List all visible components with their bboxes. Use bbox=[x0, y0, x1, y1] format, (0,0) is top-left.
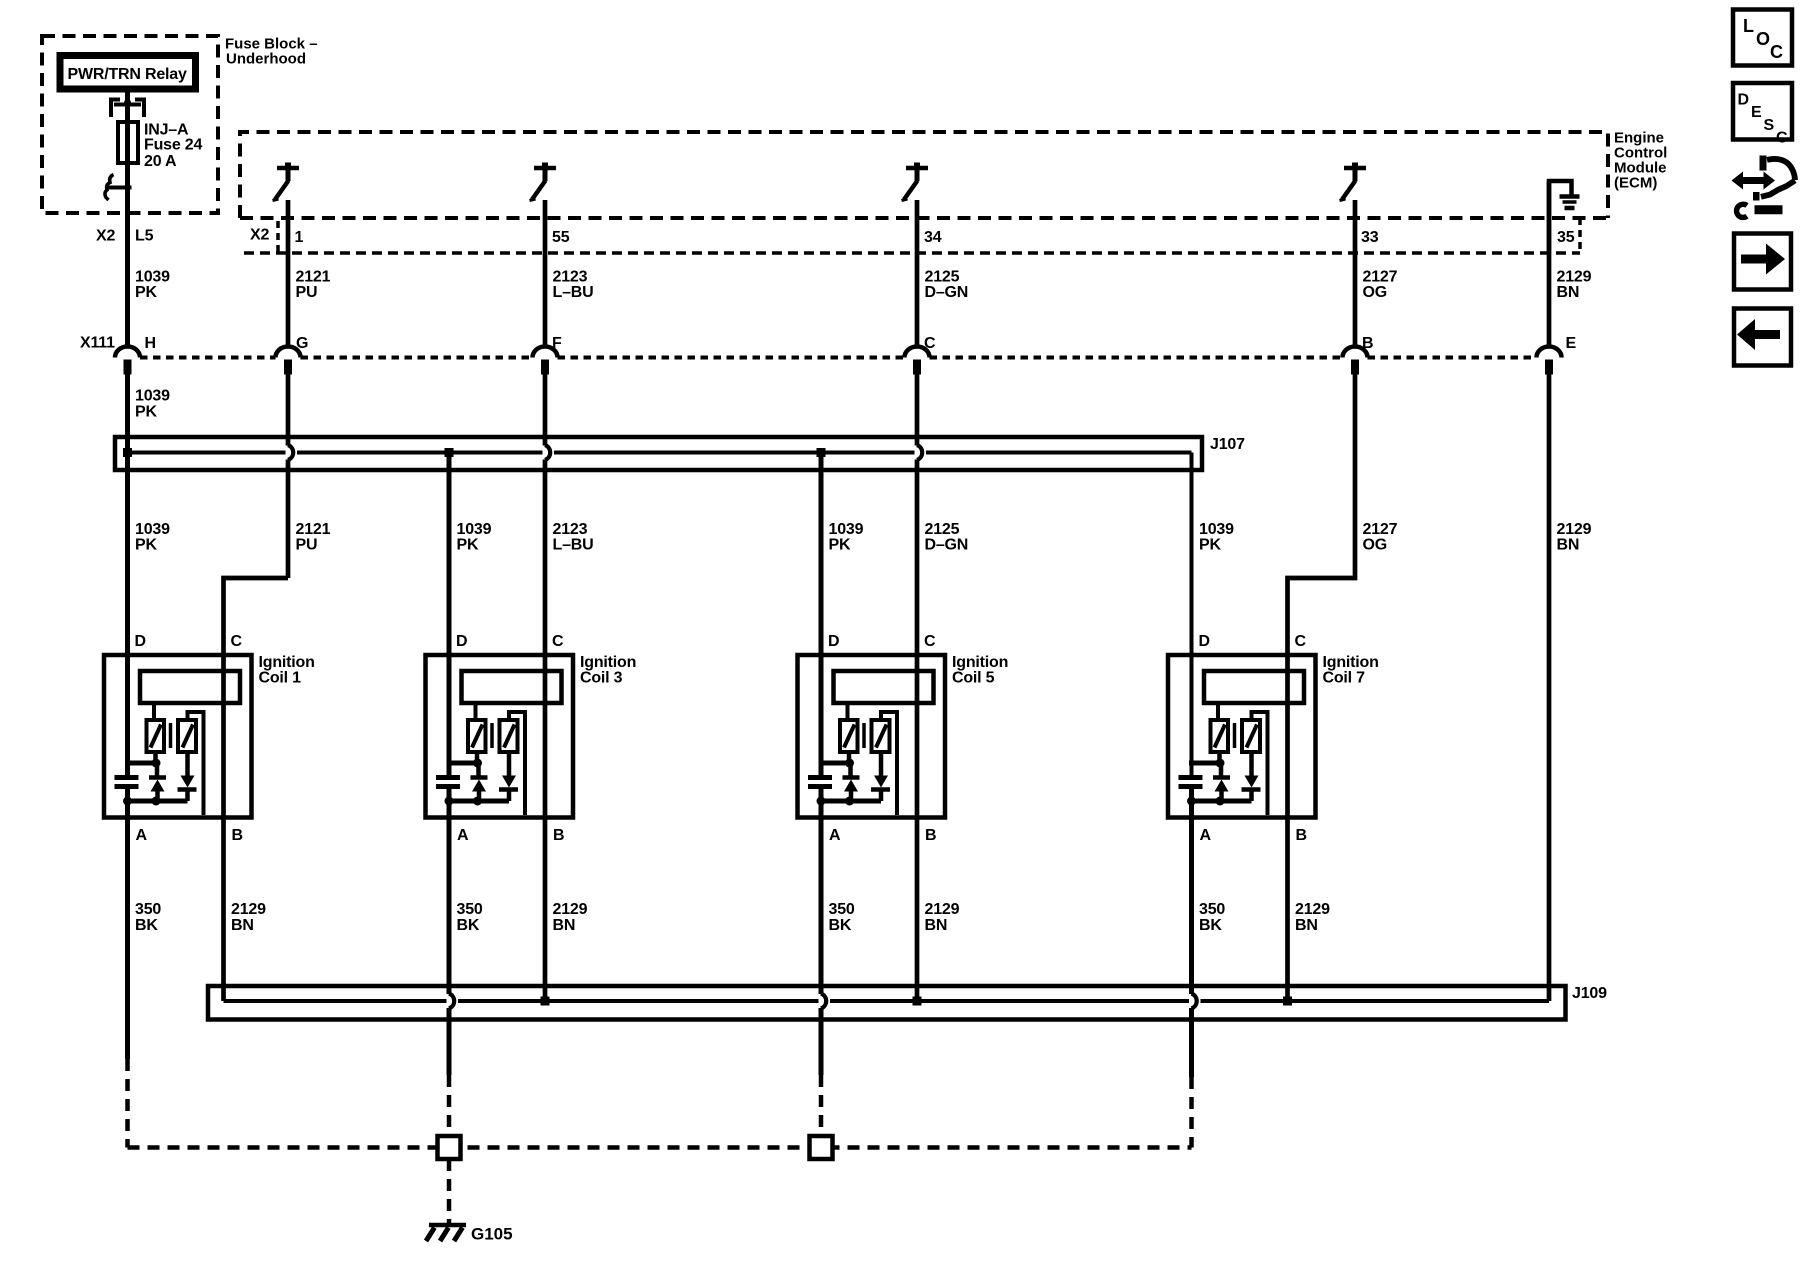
svg-text:PK: PK bbox=[1199, 537, 1221, 554]
wire 1039 PK below X111 bbox=[125, 375, 130, 778]
svg-text:PU: PU bbox=[296, 537, 318, 554]
svg-text:S: S bbox=[1764, 117, 1775, 134]
junction dot J107 coil5 feed bbox=[817, 448, 826, 457]
svg-text:B: B bbox=[1296, 827, 1307, 844]
svg-text:1: 1 bbox=[295, 229, 304, 246]
svg-text:350: 350 bbox=[829, 901, 855, 918]
wire 2121 PU jog to coil1 C bbox=[224, 578, 289, 1001]
X111 pin G bbox=[276, 347, 301, 375]
svg-text:1039: 1039 bbox=[135, 388, 170, 405]
svg-text:Ignition: Ignition bbox=[952, 654, 1008, 671]
X111 pin E bbox=[1537, 347, 1562, 375]
svg-text:B: B bbox=[232, 827, 243, 844]
svg-text:BN: BN bbox=[1557, 284, 1580, 301]
wire 2125 D-GN through J107 with hop down to J109 bbox=[915, 375, 920, 1002]
svg-text:BN: BN bbox=[553, 917, 576, 934]
svg-text:D: D bbox=[1199, 633, 1210, 650]
J109 middle line bbox=[224, 999, 1550, 1003]
svg-text:C: C bbox=[924, 633, 936, 650]
svg-text:J107: J107 bbox=[1210, 436, 1245, 453]
coil1 350 BK wire bbox=[125, 787, 130, 1060]
junction dot J109 coil3 B bbox=[541, 997, 550, 1006]
svg-text:D–GN: D–GN bbox=[925, 537, 969, 554]
coil3 dashed drop bbox=[447, 1075, 452, 1136]
X111 pin C bbox=[905, 347, 930, 375]
svg-text:Coil 5: Coil 5 bbox=[952, 670, 995, 687]
svg-text:PU: PU bbox=[296, 284, 318, 301]
svg-text:D: D bbox=[135, 633, 146, 650]
coil1 350 BK dashed drop bbox=[125, 1059, 130, 1148]
svg-text:34: 34 bbox=[924, 229, 942, 246]
wire 2129 BN down to J109 right end bbox=[1547, 375, 1552, 1002]
junction dot J109 coil5 B bbox=[913, 997, 922, 1006]
coil3 350 BK wire with J109 hop bbox=[447, 787, 452, 1076]
svg-text:C: C bbox=[552, 633, 564, 650]
svg-text:1039: 1039 bbox=[1199, 521, 1234, 538]
svg-text:B: B bbox=[553, 827, 564, 844]
coil7 350 BK wire with J109 hop bbox=[1189, 787, 1194, 1078]
wire 2121 PU through J107 with hop bbox=[286, 375, 291, 579]
svg-text:C: C bbox=[1776, 130, 1788, 147]
svg-text:L–BU: L–BU bbox=[553, 537, 594, 554]
svg-text:C: C bbox=[231, 633, 243, 650]
svg-text:BN: BN bbox=[1295, 917, 1318, 934]
svg-text:D: D bbox=[456, 633, 467, 650]
svg-text:55: 55 bbox=[552, 229, 570, 246]
svg-text:A: A bbox=[457, 827, 469, 844]
ECM driver blade pin 1 bbox=[273, 163, 300, 201]
wire 2127 OG upper bbox=[1353, 200, 1358, 347]
svg-text:350: 350 bbox=[135, 901, 161, 918]
hand tool icon bbox=[1732, 156, 1796, 218]
svg-text:E: E bbox=[1751, 104, 1762, 121]
svg-text:33: 33 bbox=[1361, 229, 1379, 246]
ECM internal ground at pin 35 bbox=[1549, 181, 1572, 253]
svg-text:PK: PK bbox=[457, 537, 479, 554]
svg-text:2129: 2129 bbox=[1557, 521, 1592, 538]
svg-text:35: 35 bbox=[1557, 229, 1575, 246]
fuse block underhood dashed box bbox=[42, 36, 218, 213]
svg-text:2123: 2123 bbox=[553, 521, 588, 538]
ECM driver blade pin 34 bbox=[902, 163, 929, 201]
svg-text:O: O bbox=[1756, 29, 1770, 49]
svg-text:2129: 2129 bbox=[925, 901, 960, 918]
ignition coil 7 bbox=[1168, 655, 1316, 818]
junction dot J107 coil3 feed bbox=[445, 448, 454, 457]
svg-text:BN: BN bbox=[231, 917, 254, 934]
svg-text:C: C bbox=[924, 335, 936, 352]
coil5 dashed drop bbox=[819, 1075, 824, 1136]
svg-text:OG: OG bbox=[1363, 537, 1388, 554]
svg-text:1039: 1039 bbox=[135, 521, 170, 538]
svg-text:Coil 7: Coil 7 bbox=[1323, 670, 1366, 687]
svg-text:A: A bbox=[136, 827, 148, 844]
junction dot J107 wire1 bbox=[123, 448, 132, 457]
svg-text:2129: 2129 bbox=[1557, 269, 1592, 286]
ignition coil 5 bbox=[798, 655, 946, 818]
svg-text:B: B bbox=[925, 827, 936, 844]
svg-text:X2: X2 bbox=[250, 227, 269, 244]
X111 pin B bbox=[1343, 347, 1368, 375]
svg-text:PK: PK bbox=[135, 404, 157, 421]
ECM connector row dashed line bbox=[244, 251, 1580, 255]
wire 2123 L-BU upper bbox=[543, 200, 548, 347]
splice S2 bbox=[810, 1136, 833, 1159]
svg-text:X2: X2 bbox=[96, 228, 115, 245]
X111 dotted line bbox=[140, 356, 1537, 360]
X111 pin H bbox=[115, 347, 140, 375]
svg-text:BK: BK bbox=[135, 917, 158, 934]
svg-text:X111: X111 bbox=[80, 335, 115, 352]
svg-text:1039: 1039 bbox=[457, 521, 492, 538]
coil5 350 BK wire with J109 hop bbox=[819, 787, 824, 1076]
svg-text:BN: BN bbox=[1557, 537, 1580, 554]
svg-text:Ignition: Ignition bbox=[1323, 654, 1379, 671]
svg-text:PK: PK bbox=[135, 537, 157, 554]
LOC icon box bbox=[1733, 10, 1792, 66]
svg-text:F: F bbox=[552, 335, 562, 352]
svg-text:G105: G105 bbox=[471, 1225, 513, 1244]
coil3 1039 feed wire bbox=[447, 453, 452, 778]
svg-text:350: 350 bbox=[457, 901, 483, 918]
svg-text:J109: J109 bbox=[1572, 985, 1607, 1002]
svg-text:PWR/TRN Relay: PWR/TRN Relay bbox=[68, 66, 187, 83]
wire 2121 PU upper bbox=[286, 200, 291, 347]
ground G105 bbox=[429, 1223, 466, 1228]
next page arrow icon bbox=[1734, 234, 1791, 290]
svg-text:2123: 2123 bbox=[553, 269, 588, 286]
splice S1 bbox=[438, 1136, 461, 1159]
svg-text:2125: 2125 bbox=[925, 521, 960, 538]
svg-text:B: B bbox=[1362, 335, 1373, 352]
svg-text:PK: PK bbox=[135, 284, 157, 301]
svg-text:E: E bbox=[1566, 335, 1577, 352]
J107 middle line with corner to coil7 feed bbox=[128, 453, 1192, 778]
svg-text:Coil 1: Coil 1 bbox=[259, 670, 302, 687]
svg-text:H: H bbox=[145, 335, 156, 352]
J107 bus outline bbox=[115, 437, 1202, 470]
svg-text:C: C bbox=[1770, 42, 1783, 62]
J109 bus outline bbox=[208, 986, 1566, 1020]
svg-text:Ignition: Ignition bbox=[580, 654, 636, 671]
DESC icon box bbox=[1733, 83, 1792, 140]
wire 2127 OG down with jog to coil7 C bbox=[1288, 375, 1356, 1002]
svg-text:L5: L5 bbox=[135, 228, 154, 245]
svg-text:1039: 1039 bbox=[829, 521, 864, 538]
svg-text:2129: 2129 bbox=[553, 901, 588, 918]
svg-text:Ignition: Ignition bbox=[259, 654, 315, 671]
dashed ground rail bbox=[128, 1145, 1192, 1150]
svg-text:OG: OG bbox=[1363, 284, 1388, 301]
svg-text:2121: 2121 bbox=[296, 269, 331, 286]
svg-text:BK: BK bbox=[829, 917, 852, 934]
svg-text:Fuse 24: Fuse 24 bbox=[144, 137, 202, 154]
svg-text:Underhood: Underhood bbox=[226, 51, 306, 68]
svg-text:2129: 2129 bbox=[231, 901, 266, 918]
connector right end bbox=[1578, 218, 1582, 253]
svg-text:A: A bbox=[829, 827, 841, 844]
svg-text:BK: BK bbox=[457, 917, 480, 934]
svg-text:BN: BN bbox=[925, 917, 948, 934]
svg-text:350: 350 bbox=[1199, 901, 1225, 918]
svg-text:PK: PK bbox=[829, 537, 851, 554]
svg-text:D: D bbox=[1738, 92, 1750, 109]
svg-text:2121: 2121 bbox=[296, 521, 331, 538]
svg-text:G: G bbox=[296, 335, 308, 352]
fuse INJ-A Fuse 24 20A bbox=[118, 122, 138, 163]
ECM driver blade pin 33 bbox=[1340, 163, 1367, 201]
coil7 dashed drop bbox=[1189, 1077, 1194, 1148]
engine control module dashed box bbox=[240, 132, 1608, 218]
connector X2 separator bbox=[276, 221, 280, 253]
PWR/TRN Relay box bbox=[60, 56, 196, 90]
ECM driver blade pin 55 bbox=[530, 163, 557, 201]
wire 2125 D-GN upper bbox=[915, 200, 920, 347]
ignition coil 3 bbox=[426, 655, 574, 818]
svg-text:2125: 2125 bbox=[925, 269, 960, 286]
svg-text:L–BU: L–BU bbox=[553, 284, 594, 301]
svg-text:Coil 3: Coil 3 bbox=[580, 670, 623, 687]
X111 pin F bbox=[533, 347, 558, 375]
svg-text:BK: BK bbox=[1199, 917, 1222, 934]
svg-text:D–GN: D–GN bbox=[925, 284, 969, 301]
svg-text:D: D bbox=[828, 633, 839, 650]
wire 2123 L-BU through J107 with hop down to J109 bbox=[543, 375, 548, 1002]
dashed drop to G105 bbox=[447, 1159, 452, 1223]
prev page arrow icon bbox=[1734, 309, 1791, 366]
svg-text:A: A bbox=[1200, 827, 1212, 844]
svg-text:1039: 1039 bbox=[135, 269, 170, 286]
junction dot J109 coil7 B bbox=[1283, 997, 1292, 1006]
svg-text:2127: 2127 bbox=[1363, 521, 1398, 538]
ignition coil 1 bbox=[104, 655, 252, 818]
wire 1039 PK from relay down through fuse bbox=[125, 93, 130, 348]
fuse clip symbol bbox=[111, 100, 144, 118]
wire 2129 BN upper bbox=[1547, 181, 1552, 347]
coil5 1039 feed wire bbox=[819, 453, 824, 778]
svg-text:2127: 2127 bbox=[1363, 269, 1398, 286]
svg-text:2129: 2129 bbox=[1295, 901, 1330, 918]
svg-text:(ECM): (ECM) bbox=[1614, 175, 1657, 192]
svg-text:C: C bbox=[1295, 633, 1307, 650]
in-line connector symbol on wire 1 bbox=[108, 186, 132, 190]
svg-text:20 A: 20 A bbox=[144, 153, 177, 170]
svg-text:L: L bbox=[1743, 16, 1754, 36]
